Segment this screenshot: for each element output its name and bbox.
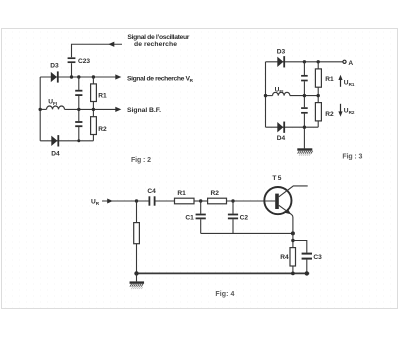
svg-text:R1: R1	[325, 76, 334, 83]
svg-text:C3: C3	[313, 254, 322, 261]
svg-text:R2: R2	[325, 111, 334, 118]
svg-text:Fig : 3: Fig : 3	[342, 153, 362, 160]
svg-text:de recherche: de recherche	[134, 41, 177, 48]
svg-text:UR1: UR1	[344, 80, 355, 88]
svg-text:T5: T5	[272, 175, 282, 182]
svg-text:Signal de recherche VR: Signal de recherche VR	[127, 75, 194, 83]
svg-text:UR: UR	[91, 198, 100, 206]
svg-text:R1: R1	[177, 190, 186, 197]
svg-text:Fig: 4: Fig: 4	[215, 291, 234, 298]
svg-text:C1: C1	[185, 215, 194, 222]
svg-text:R1: R1	[98, 92, 107, 99]
svg-text:R2: R2	[98, 126, 107, 133]
svg-text:Signal de l’oscillateur: Signal de l’oscillateur	[127, 34, 189, 41]
svg-text:UFI: UFI	[275, 87, 284, 95]
svg-text:Signal B.F.: Signal B.F.	[127, 107, 161, 114]
svg-text:D3: D3	[277, 48, 286, 55]
svg-text:A: A	[348, 60, 353, 67]
svg-text:C2: C2	[240, 215, 249, 222]
svg-text:UR2: UR2	[344, 107, 355, 115]
svg-text:C4: C4	[147, 188, 156, 195]
svg-text:UFI: UFI	[48, 98, 57, 106]
svg-text:D3: D3	[50, 63, 59, 70]
svg-text:R2: R2	[211, 190, 220, 197]
svg-text:R4: R4	[280, 254, 289, 261]
svg-text:C23: C23	[78, 58, 90, 65]
svg-text:D4: D4	[51, 151, 60, 158]
svg-text:Fig : 2: Fig : 2	[131, 157, 151, 164]
svg-text:D4: D4	[277, 135, 286, 142]
